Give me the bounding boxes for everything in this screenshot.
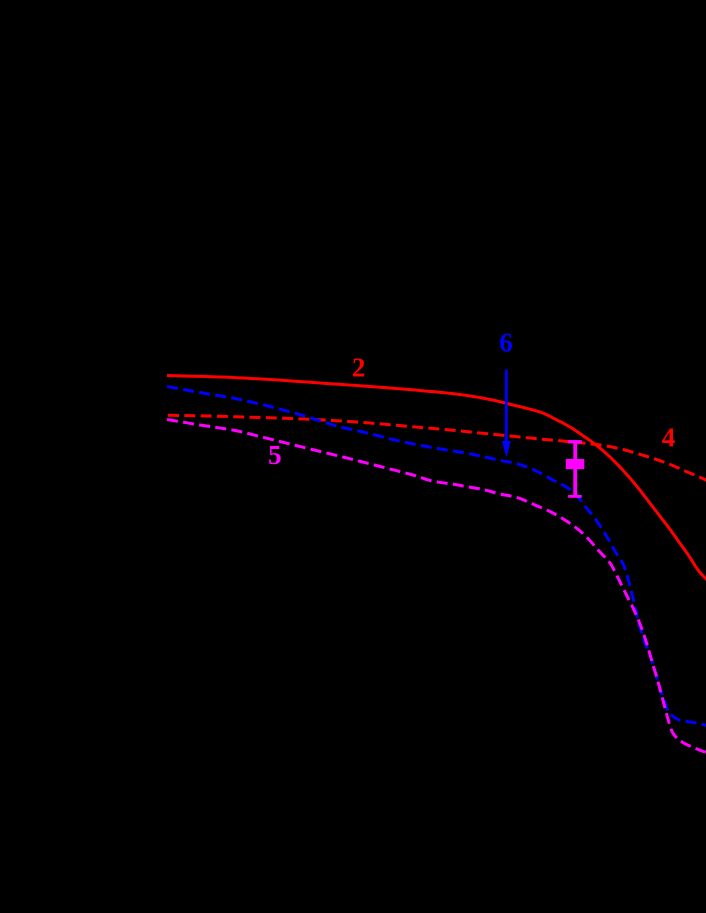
curve 6 (blue dashed): [167, 387, 706, 726]
curve 4 (red dashed): [168, 415, 706, 480]
svg-text:6: 6: [499, 328, 513, 358]
error bar square marker: [566, 459, 584, 469]
svg-text:5: 5: [268, 440, 282, 470]
arrow 6 (blue, pointing down to blue curve): [505, 370, 508, 443]
svg-text:2: 2: [352, 352, 366, 382]
curve 2 (red solid): [167, 376, 706, 581]
svg-text:4: 4: [662, 422, 676, 452]
error bar (magenta data point): [573, 442, 577, 497]
curve 5 (magenta dashed): [167, 420, 706, 753]
